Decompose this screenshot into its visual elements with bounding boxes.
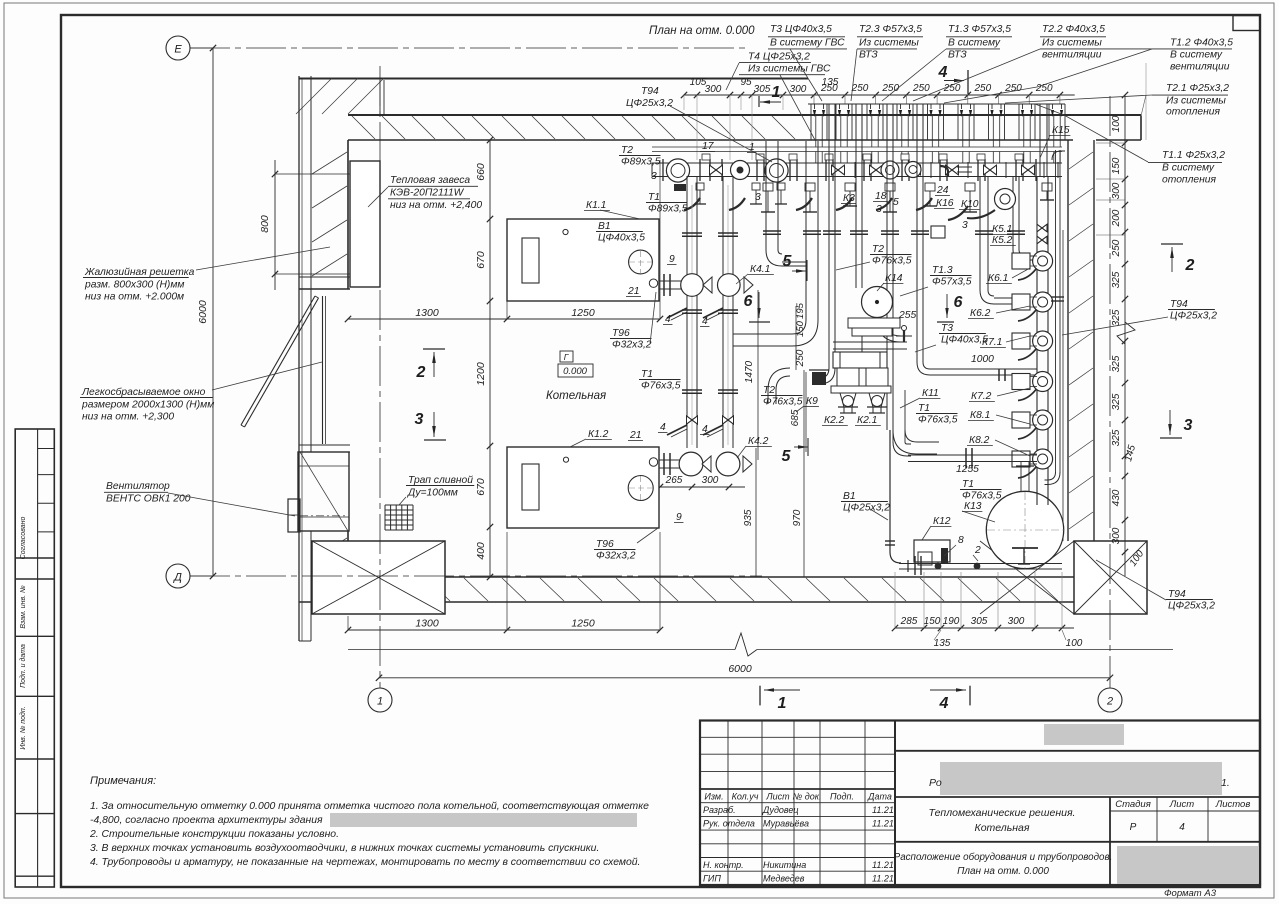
svg-text:Е: Е	[174, 44, 182, 56]
svg-text:190: 190	[943, 616, 960, 627]
svg-text:305: 305	[754, 84, 771, 95]
svg-text:4: 4	[939, 695, 949, 712]
svg-text:Φ76х3,5: Φ76х3,5	[641, 381, 681, 392]
svg-text:К11: К11	[922, 388, 939, 399]
svg-text:Т1: Т1	[918, 403, 930, 414]
svg-text:В систему: В систему	[1162, 163, 1215, 174]
svg-text:Из системы: Из системы	[859, 38, 919, 49]
svg-text:К1.2: К1.2	[588, 429, 609, 440]
svg-text:Т2: Т2	[621, 145, 633, 156]
svg-text:ЦΦ40х3,5: ЦΦ40х3,5	[598, 233, 645, 244]
svg-text:250: 250	[943, 83, 961, 94]
svg-text:300: 300	[705, 84, 722, 95]
svg-text:4: 4	[660, 422, 666, 433]
svg-text:К4.2: К4.2	[748, 436, 769, 447]
svg-text:6: 6	[954, 294, 963, 311]
svg-text:Т1.3: Т1.3	[932, 265, 953, 276]
svg-text:Φ76х3,5: Φ76х3,5	[962, 491, 1002, 502]
svg-text:ЦΦ25х3,2: ЦΦ25х3,2	[626, 98, 673, 109]
svg-text:Φ89х3,5: Φ89х3,5	[648, 204, 688, 215]
svg-text:ЦΦ25х3,2: ЦΦ25х3,2	[843, 503, 890, 514]
svg-text:5: 5	[893, 197, 899, 208]
svg-text:Т1.3 Φ57х3,5: Т1.3 Φ57х3,5	[948, 24, 1011, 35]
svg-text:Ро: Ро	[929, 777, 942, 789]
svg-text:В систему: В систему	[948, 38, 1001, 49]
svg-text:3. В верхних точках устано: 3. В верхних точках установить воздухоот…	[90, 843, 599, 854]
svg-text:1300: 1300	[415, 618, 439, 630]
svg-text:300: 300	[702, 475, 719, 486]
svg-text:Н. контр.: Н. контр.	[703, 860, 744, 870]
svg-text:250: 250	[795, 349, 806, 367]
svg-text:3: 3	[876, 204, 882, 215]
svg-text:11.21: 11.21	[872, 874, 894, 884]
svg-text:В1: В1	[843, 491, 856, 502]
svg-text:250: 250	[973, 83, 991, 94]
svg-text:К6.1: К6.1	[988, 273, 1008, 284]
svg-text:К9: К9	[806, 396, 818, 407]
svg-text:Т2.1 Φ25х3,2: Т2.1 Φ25х3,2	[1166, 83, 1229, 94]
svg-text:Муравьёва: Муравьёва	[763, 819, 809, 829]
svg-text:305: 305	[971, 616, 988, 627]
svg-text:вентиляции: вентиляции	[1170, 62, 1230, 73]
svg-text:Φ76х3,5: Φ76х3,5	[872, 256, 912, 267]
svg-text:2: 2	[974, 545, 981, 556]
svg-text:Т1: Т1	[641, 369, 653, 380]
svg-text:отопления: отопления	[1166, 107, 1221, 118]
svg-text:К1.1: К1.1	[586, 200, 606, 211]
svg-text:325: 325	[1111, 309, 1122, 326]
svg-text:970: 970	[792, 509, 803, 526]
svg-text:150: 150	[1111, 157, 1122, 174]
svg-text:Р: Р	[1130, 822, 1137, 833]
svg-text:800: 800	[259, 215, 271, 233]
svg-text:2. Строительные конструкции: 2. Строительные конструкции показаны усл…	[89, 829, 339, 840]
svg-text:Φ76х3,5: Φ76х3,5	[918, 415, 958, 426]
svg-text:Т94: Т94	[641, 86, 659, 97]
svg-text:Из системы ГВС: Из системы ГВС	[748, 64, 831, 75]
svg-text:9: 9	[676, 512, 682, 523]
svg-text:Лист: Лист	[765, 791, 790, 801]
svg-text:Т96: Т96	[612, 328, 630, 339]
svg-text:150: 150	[924, 616, 941, 627]
svg-text:1000: 1000	[971, 354, 994, 365]
svg-text:285: 285	[900, 616, 918, 627]
svg-text:ЦΦ25х3,2: ЦΦ25х3,2	[1170, 311, 1217, 322]
svg-text:1: 1	[749, 142, 755, 153]
svg-text:0.000: 0.000	[563, 366, 587, 377]
svg-text:В систему ГВС: В систему ГВС	[770, 38, 845, 49]
svg-text:Медведев: Медведев	[763, 874, 805, 884]
svg-text:300: 300	[1111, 182, 1122, 199]
svg-text:Т2: Т2	[763, 385, 775, 396]
svg-text:325: 325	[1111, 429, 1122, 446]
svg-text:Т1.1 Φ25х3,2: Т1.1 Φ25х3,2	[1162, 150, 1225, 161]
svg-text:ЦΦ25х3,2: ЦΦ25х3,2	[1168, 601, 1215, 612]
svg-text:Т1.2 Φ40х3,5: Т1.2 Φ40х3,5	[1170, 38, 1233, 49]
svg-text:Легкосбрасываемое окно: Легкосбрасываемое окно	[81, 386, 206, 398]
svg-text:1300: 1300	[415, 307, 439, 319]
svg-text:К8.1: К8.1	[970, 410, 990, 421]
svg-text:низ на отм. +2,300: низ на отм. +2,300	[82, 412, 174, 423]
svg-text:1250: 1250	[571, 307, 595, 319]
svg-text:вентиляции: вентиляции	[1042, 50, 1102, 61]
svg-text:Рук. отдела: Рук. отдела	[703, 819, 755, 829]
svg-text:17: 17	[702, 141, 715, 152]
svg-text:660: 660	[475, 163, 487, 181]
svg-text:5: 5	[782, 448, 792, 465]
svg-text:В1: В1	[598, 221, 611, 232]
svg-text:Т94: Т94	[1170, 299, 1188, 310]
svg-text:250: 250	[912, 83, 930, 94]
svg-text:100: 100	[1111, 115, 1122, 132]
svg-text:300: 300	[790, 84, 807, 95]
svg-text:670: 670	[475, 251, 487, 269]
svg-text:1: 1	[772, 84, 781, 101]
svg-text:4: 4	[1179, 822, 1185, 833]
svg-text:К7.2: К7.2	[971, 391, 992, 402]
svg-text:Трап сливной: Трап сливной	[408, 475, 473, 486]
svg-text:1: 1	[377, 696, 383, 708]
svg-text:Листов: Листов	[1215, 799, 1251, 810]
svg-text:255: 255	[898, 310, 916, 321]
svg-text:Инв. № подп.: Инв. № подп.	[19, 706, 27, 749]
svg-text:Кол.уч: Кол.уч	[732, 791, 759, 801]
svg-text:Жалюзийная решетка: Жалюзийная решетка	[84, 267, 195, 278]
svg-text:К6.2: К6.2	[970, 308, 991, 319]
svg-text:К8.2: К8.2	[969, 435, 990, 446]
svg-text:К7.1: К7.1	[982, 337, 1002, 348]
svg-text:Разраб.: Разраб.	[703, 805, 736, 815]
svg-text:Подп.: Подп.	[830, 791, 854, 801]
svg-text:размером 2000х1300 (Н)мм: размером 2000х1300 (Н)мм	[81, 399, 214, 410]
svg-text:6000: 6000	[197, 300, 209, 324]
svg-text:4: 4	[702, 316, 708, 327]
svg-text:Т2.3 Φ57х3,5: Т2.3 Φ57х3,5	[859, 24, 922, 35]
svg-text:Т3: Т3	[941, 323, 953, 334]
svg-text:4: 4	[665, 314, 671, 325]
svg-text:КЭВ-20П2111W: КЭВ-20П2111W	[390, 188, 465, 199]
svg-text:4: 4	[938, 64, 948, 81]
svg-text:-4,800, согласно проекта ар: -4,800, согласно проекта архитектуры зда…	[90, 815, 323, 826]
svg-text:Φ32х3,2: Φ32х3,2	[596, 551, 636, 562]
svg-text:1. За относительную отметку: 1. За относительную отметку 0.000 принят…	[90, 801, 649, 812]
svg-text:Подп. и дата: Подп. и дата	[19, 644, 27, 688]
svg-text:4: 4	[702, 424, 708, 435]
svg-text:21: 21	[627, 286, 639, 297]
svg-text:Т1: Т1	[962, 479, 974, 490]
svg-text:Т94: Т94	[1168, 589, 1186, 600]
svg-text:ВТЗ: ВТЗ	[948, 50, 967, 61]
svg-text:Взам. инв. №: Взам. инв. №	[20, 585, 27, 629]
svg-text:250: 250	[820, 83, 838, 94]
svg-text:Д: Д	[172, 572, 182, 584]
svg-text:250: 250	[851, 83, 869, 94]
svg-text:300: 300	[1111, 527, 1122, 544]
svg-text:Т96: Т96	[596, 539, 614, 550]
svg-text:К13: К13	[964, 501, 982, 512]
svg-text:отопления: отопления	[1162, 175, 1217, 186]
svg-text:325: 325	[1111, 271, 1122, 288]
svg-text:Т2.2 Φ40х3,5: Т2.2 Φ40х3,5	[1042, 24, 1105, 35]
svg-text:Примечания:: Примечания:	[90, 775, 156, 787]
svg-text:Вентилятор: Вентилятор	[106, 481, 170, 492]
svg-text:24: 24	[936, 185, 949, 196]
svg-text:430: 430	[1111, 489, 1122, 506]
svg-text:Стадия: Стадия	[1115, 799, 1151, 810]
svg-text:Тепловая завеса: Тепловая завеса	[390, 175, 470, 186]
svg-text:План на отм. 0.000: План на отм. 0.000	[957, 866, 1049, 877]
svg-text:План на отм. 0.000: План на отм. 0.000	[649, 25, 755, 37]
svg-text:325: 325	[1111, 355, 1122, 372]
svg-text:Ду=100мм: Ду=100мм	[407, 488, 458, 499]
svg-text:К16: К16	[936, 198, 954, 209]
svg-text:1250: 1250	[571, 618, 595, 630]
svg-text:11.21: 11.21	[872, 819, 894, 829]
svg-text:11.21: 11.21	[872, 860, 894, 870]
svg-text:Дудовец: Дудовец	[762, 805, 799, 815]
svg-text:К12: К12	[933, 516, 951, 527]
svg-text:195: 195	[795, 302, 806, 319]
svg-text:3: 3	[415, 411, 424, 428]
svg-text:К4.1: К4.1	[750, 264, 770, 275]
svg-text:Т3 ЦΦ40х3,5: Т3 ЦΦ40х3,5	[770, 24, 832, 35]
svg-text:1.: 1.	[1221, 777, 1230, 789]
svg-text:низ на отм. +2.000м: низ на отм. +2.000м	[85, 292, 184, 303]
svg-text:6000: 6000	[728, 663, 752, 675]
svg-text:2: 2	[1185, 257, 1195, 274]
svg-text:3: 3	[755, 192, 761, 203]
svg-text:Котельная: Котельная	[546, 390, 606, 402]
svg-text:300: 300	[1008, 616, 1025, 627]
svg-text:95: 95	[740, 77, 752, 88]
svg-text:Из системы: Из системы	[1042, 38, 1102, 49]
svg-text:250: 250	[1111, 239, 1122, 257]
svg-text:100: 100	[1066, 638, 1083, 649]
svg-text:низ на отм. +2,400: низ на отм. +2,400	[390, 200, 482, 211]
svg-text:1200: 1200	[475, 362, 487, 386]
svg-text:3: 3	[962, 220, 968, 231]
svg-text:Дата: Дата	[867, 791, 892, 801]
svg-text:К5.1: К5.1	[992, 224, 1012, 235]
svg-text:К14: К14	[885, 273, 903, 284]
svg-text:Котельная: Котельная	[975, 822, 1030, 834]
svg-text:Т1: Т1	[648, 192, 660, 203]
svg-text:Изм.: Изм.	[704, 791, 723, 801]
svg-text:Формат А3: Формат А3	[1164, 888, 1217, 899]
svg-text:К3: К3	[843, 193, 855, 204]
svg-text:Т4 ЦΦ25х3,2: Т4 ЦΦ25х3,2	[748, 52, 810, 63]
svg-text:685: 685	[790, 409, 801, 426]
svg-text:935: 935	[743, 509, 754, 526]
svg-text:Никитина: Никитина	[763, 860, 806, 870]
svg-text:К5.2: К5.2	[992, 235, 1013, 246]
svg-text:В систему: В систему	[1170, 50, 1223, 61]
svg-text:Тепломеханические решения.: Тепломеханические решения.	[929, 807, 1076, 819]
svg-text:№ док.: № док.	[793, 791, 822, 801]
svg-text:3: 3	[1184, 417, 1193, 434]
svg-text:6: 6	[744, 293, 753, 310]
svg-text:9: 9	[669, 254, 675, 265]
svg-text:11.21: 11.21	[872, 805, 894, 815]
svg-text:Φ89х3,5: Φ89х3,5	[621, 157, 661, 168]
svg-text:1: 1	[778, 695, 787, 712]
svg-text:ВТЗ: ВТЗ	[859, 50, 878, 61]
svg-text:Т2: Т2	[872, 244, 884, 255]
svg-text:400: 400	[475, 542, 487, 560]
svg-text:2: 2	[416, 364, 426, 381]
svg-text:Φ57х3,5: Φ57х3,5	[932, 277, 972, 288]
svg-text:Лист: Лист	[1169, 799, 1195, 810]
svg-text:8: 8	[958, 535, 964, 546]
svg-text:1255: 1255	[956, 464, 979, 475]
svg-text:К10: К10	[961, 199, 979, 210]
svg-text:Φ76х3,5: Φ76х3,5	[763, 397, 803, 408]
svg-text:135: 135	[934, 638, 951, 649]
svg-text:2: 2	[1106, 696, 1113, 708]
svg-text:разм. 800х300 (Н)мм: разм. 800х300 (Н)мм	[84, 279, 184, 290]
svg-text:Расположение оборудования и тр: Расположение оборудования и трубопроводо…	[894, 852, 1113, 863]
svg-text:3: 3	[651, 171, 657, 182]
svg-text:265: 265	[665, 475, 683, 486]
svg-text:К2.2: К2.2	[824, 415, 845, 426]
svg-text:670: 670	[475, 478, 487, 496]
svg-text:18: 18	[875, 191, 887, 202]
svg-text:21: 21	[629, 430, 641, 441]
svg-text:4. Трубопроводы и арматуру,: 4. Трубопроводы и арматуру, не показанны…	[90, 856, 640, 868]
svg-text:Φ32х3,2: Φ32х3,2	[612, 340, 652, 351]
svg-text:325: 325	[1111, 393, 1122, 410]
svg-text:ГИП: ГИП	[703, 874, 721, 884]
svg-text:1470: 1470	[744, 360, 755, 383]
svg-text:200: 200	[1111, 209, 1122, 227]
svg-text:Из системы: Из системы	[1166, 96, 1226, 107]
svg-text:К2.1: К2.1	[857, 415, 877, 426]
svg-text:Согласовано: Согласовано	[20, 517, 27, 560]
svg-text:К15: К15	[1052, 125, 1070, 136]
